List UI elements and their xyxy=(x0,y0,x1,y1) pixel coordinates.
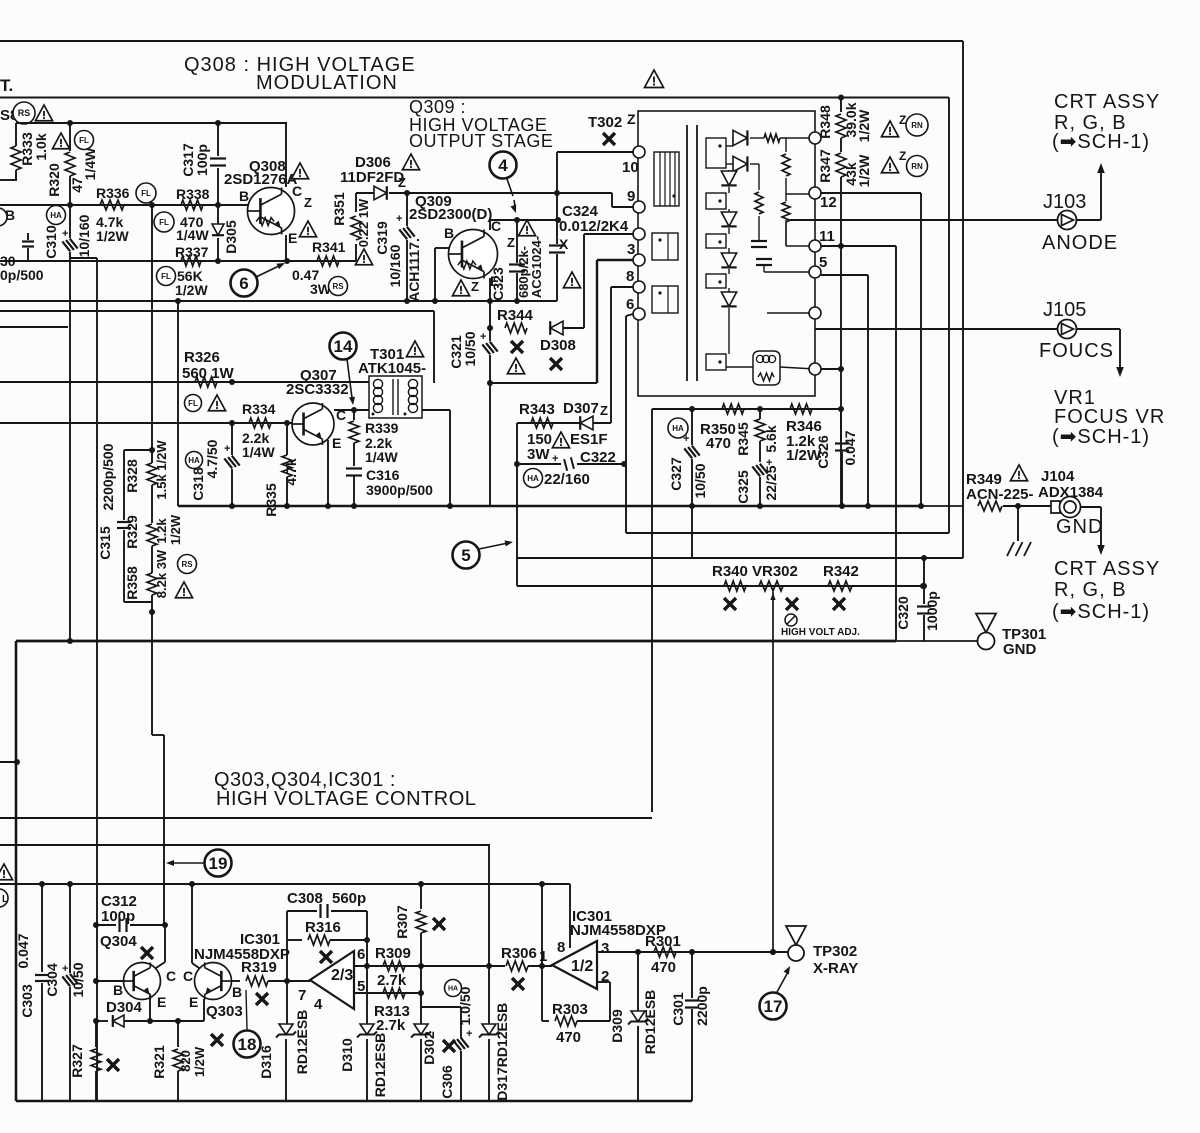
wire Q307 emitter xyxy=(327,440,329,447)
warning triangle Z1 xyxy=(881,121,898,137)
mark X Q303 xyxy=(211,1034,223,1046)
potentiometer VR302 xyxy=(759,581,783,591)
indicator RN 1 xyxy=(906,114,928,136)
svg-text:3: 3 xyxy=(627,241,635,258)
svg-text:OUTPUT STAGE: OUTPUT STAGE xyxy=(409,131,553,151)
svg-text:C: C xyxy=(166,968,176,984)
resistor R349 xyxy=(978,501,1002,511)
warning triangle Q309 E xyxy=(452,280,469,296)
wire T301 right pin xyxy=(422,409,450,411)
wire pin3 line y952 xyxy=(597,951,788,953)
wire Q307 collector line xyxy=(334,409,369,411)
svg-text:HA: HA xyxy=(50,211,62,220)
svg-text:+: + xyxy=(480,331,486,343)
wire stub left y180 xyxy=(0,179,16,181)
wire x367 drop xyxy=(366,940,368,1024)
svg-text:0.012/2K4: 0.012/2K4 xyxy=(559,218,629,235)
svg-text:2SD2300(D): 2SD2300(D) xyxy=(409,206,492,223)
T302 HV diode 3 xyxy=(728,248,730,253)
svg-text:D308: D308 xyxy=(540,337,576,354)
T302 pin 10 xyxy=(633,146,645,158)
svg-text:VR302: VR302 xyxy=(752,563,798,580)
T302 primary winding 3 xyxy=(652,286,678,313)
mark X R342 xyxy=(833,598,845,610)
wire Q304 emitter xyxy=(149,995,151,1021)
svg-text:E: E xyxy=(332,435,341,451)
op-amp IC301 2/3 xyxy=(310,951,354,1009)
mark X Q304 xyxy=(141,947,153,959)
T302 secondary winding boxes xyxy=(706,138,726,168)
svg-text:1.0/50: 1.0/50 xyxy=(457,986,473,1025)
svg-text:E: E xyxy=(189,994,198,1010)
svg-text:6: 6 xyxy=(626,296,634,313)
svg-text:C323: C323 xyxy=(490,267,506,301)
warning triangle top xyxy=(645,70,664,88)
svg-text:+: + xyxy=(396,213,402,225)
svg-text:C310: C310 xyxy=(43,225,59,259)
svg-text:1.5k 1/2W: 1.5k 1/2W xyxy=(154,440,169,500)
transistor Q304 xyxy=(124,963,161,1000)
capacitor C318 xyxy=(231,423,233,455)
svg-text:R306: R306 xyxy=(501,945,537,962)
svg-text:R328: R328 xyxy=(124,459,140,493)
resistor R336 xyxy=(100,200,124,210)
T302 primary winding 1 xyxy=(654,152,679,206)
wire vr line y586 xyxy=(517,585,924,587)
svg-text:3W: 3W xyxy=(527,446,550,463)
svg-text:MODULATION: MODULATION xyxy=(256,72,398,94)
svg-text:R335: R335 xyxy=(263,483,279,517)
testpoint TP302 xyxy=(770,949,776,955)
svg-text:3900p/500: 3900p/500 xyxy=(366,482,433,498)
svg-text:7: 7 xyxy=(298,987,306,1004)
svg-text:5: 5 xyxy=(819,254,827,271)
indicator FL R320 xyxy=(75,131,94,150)
svg-text:ATK1045-: ATK1045- xyxy=(358,360,426,377)
warning triangle T301 xyxy=(406,341,423,357)
wire thick gnd bus y641 xyxy=(16,640,896,643)
capacitor C306 xyxy=(453,1036,468,1051)
resistor R320 xyxy=(69,123,71,151)
svg-text:RD12ESB: RD12ESB xyxy=(294,1010,310,1075)
svg-text:8: 8 xyxy=(557,939,565,956)
svg-text:470: 470 xyxy=(706,435,731,452)
wire output rail x287 xyxy=(286,911,288,981)
svg-text:X: X xyxy=(559,236,569,252)
wire C306 jog xyxy=(421,1006,461,1008)
svg-text:5.6k: 5.6k xyxy=(763,425,779,452)
svg-text:1/2W: 1/2W xyxy=(856,109,872,142)
svg-text:1/2W: 1/2W xyxy=(168,514,183,545)
svg-text:RN: RN xyxy=(911,121,923,130)
resistor R328 xyxy=(151,450,153,463)
svg-text:12: 12 xyxy=(820,194,837,211)
wire right inner vertical xyxy=(948,98,950,534)
svg-text:D310: D310 xyxy=(339,1038,355,1072)
wire Q308 collector xyxy=(285,123,287,187)
resistor R338 xyxy=(181,200,203,210)
mark X VR302 xyxy=(786,598,798,610)
svg-text:B: B xyxy=(239,188,249,204)
capacitor C304 xyxy=(69,884,71,973)
warning triangle top-left xyxy=(35,105,52,121)
capacitor C323 xyxy=(516,220,518,263)
svg-text:R343: R343 xyxy=(519,401,555,418)
wire hv sub line y558 xyxy=(517,557,963,559)
svg-text:Z: Z xyxy=(899,149,906,163)
svg-text:E: E xyxy=(288,230,297,246)
svg-text:FOCUS VR: FOCUS VR xyxy=(1054,406,1165,428)
warning triangle R349 xyxy=(1010,465,1027,481)
svg-text:CRT ASSY: CRT ASSY xyxy=(1054,91,1160,113)
svg-text:R319: R319 xyxy=(241,959,277,976)
svg-text:FL: FL xyxy=(161,272,171,281)
svg-text:D317: D317 xyxy=(494,1067,510,1101)
wire chain down jog xyxy=(151,612,153,735)
resistor R346 xyxy=(790,404,812,414)
svg-text:Z: Z xyxy=(304,195,312,210)
wire pin11 drop x896 xyxy=(895,246,897,641)
svg-text:5: 5 xyxy=(461,546,470,565)
resistor R350 xyxy=(722,404,744,414)
svg-text:RD12ESB: RD12ESB xyxy=(642,990,658,1055)
svg-text:E: E xyxy=(157,994,166,1010)
wire D308 up x584 xyxy=(583,234,585,328)
zener D302 xyxy=(414,1024,428,1035)
T302 interior pin12 line xyxy=(786,193,809,195)
wire T301 top feed xyxy=(433,311,435,383)
svg-text:1/4W: 1/4W xyxy=(365,449,398,465)
svg-text:R338: R338 xyxy=(176,186,210,202)
svg-text:2200p/500: 2200p/500 xyxy=(100,443,116,510)
T302 pin 3 xyxy=(633,254,645,266)
svg-text:R342: R342 xyxy=(823,563,859,580)
mark X R319 xyxy=(256,993,268,1005)
wire node line y123 xyxy=(16,122,287,124)
svg-text:10/160: 10/160 xyxy=(387,244,403,287)
T302 wire mid xyxy=(785,220,787,246)
wire GND bus y506 xyxy=(178,505,921,508)
resistor R307 xyxy=(420,884,422,909)
svg-text:R351: R351 xyxy=(331,192,347,226)
warning triangle R333 xyxy=(52,133,69,149)
svg-text:+: + xyxy=(224,443,230,455)
svg-text:100p: 100p xyxy=(101,908,135,925)
svg-text:1: 1 xyxy=(539,948,547,965)
svg-text:1/4W: 1/4W xyxy=(242,444,275,460)
svg-text:0.047: 0.047 xyxy=(842,430,858,465)
wire C310 jog xyxy=(70,257,97,259)
indicator L left edge xyxy=(0,889,8,907)
balloon 6 callout xyxy=(231,270,258,297)
svg-text:J105: J105 xyxy=(1043,299,1086,321)
resistor R351 xyxy=(355,244,357,261)
svg-text:HIGH VOLTAGE CONTROL: HIGH VOLTAGE CONTROL xyxy=(216,788,476,810)
warning triangle left edge xyxy=(0,864,13,880)
mark X R316 xyxy=(320,951,332,963)
svg-text:8: 8 xyxy=(626,268,634,285)
wire pin8 drop xyxy=(569,884,571,948)
T302 pin 8 xyxy=(633,281,645,293)
T302 HV diode top B xyxy=(726,163,733,165)
warning triangle Q308 C xyxy=(291,163,308,179)
resistor R340 xyxy=(724,581,746,591)
svg-text:RN: RN xyxy=(911,162,923,171)
wire collector line y220 xyxy=(490,219,558,221)
balloon 17 callout xyxy=(760,993,787,1020)
warning triangle Q307 xyxy=(208,395,225,411)
svg-text:11: 11 xyxy=(819,228,835,245)
capacitor C326 xyxy=(840,409,842,441)
svg-text:Q303: Q303 xyxy=(206,1003,243,1020)
wire x692 below bus xyxy=(691,506,693,558)
svg-text:RD12ESB: RD12ESB xyxy=(494,1003,510,1068)
wire pin3 thick feed xyxy=(597,259,633,261)
svg-text:R327: R327 xyxy=(69,1044,85,1078)
svg-text:+: + xyxy=(62,228,68,240)
svg-text:J104: J104 xyxy=(1041,468,1075,485)
warning triangle Z2 xyxy=(881,157,898,173)
wire focus-area vertical x924 xyxy=(923,558,925,604)
svg-text:R329: R329 xyxy=(124,515,140,549)
svg-text:D309: D309 xyxy=(609,1009,625,1043)
wire pin8 line xyxy=(611,286,633,288)
wire emitter junction y1021 xyxy=(203,999,205,1021)
svg-text:+: + xyxy=(62,963,68,975)
svg-text:R309: R309 xyxy=(375,945,411,962)
T302 right rail pins xyxy=(809,132,821,144)
warning triangle Q309 C xyxy=(518,220,535,236)
wire box top y423 right xyxy=(517,422,611,424)
capacitor C303 xyxy=(41,884,43,972)
warning triangle D306 xyxy=(402,154,419,170)
svg-text:Z: Z xyxy=(471,279,479,294)
T302 primary winding 2 xyxy=(652,233,678,260)
indicator RN 2 xyxy=(907,156,928,177)
svg-text:+: + xyxy=(683,433,689,445)
warning triangle Q308 E xyxy=(299,221,316,237)
wire pin3-C324 line y234 xyxy=(584,233,633,235)
resistor R327 xyxy=(95,1021,97,1047)
wire chain top xyxy=(124,449,152,451)
svg-text:D307: D307 xyxy=(563,400,599,417)
svg-text:Q309 :: Q309 : xyxy=(409,97,466,117)
wire hline y845 xyxy=(0,844,490,846)
svg-text:C322: C322 xyxy=(580,449,616,466)
wire bottom bus xyxy=(16,1100,692,1103)
svg-text:R307: R307 xyxy=(394,905,410,939)
warning triangle R341 right xyxy=(355,249,372,265)
T302 focus coil xyxy=(753,351,780,385)
zener D316 xyxy=(286,981,288,1024)
svg-text:470: 470 xyxy=(651,959,676,976)
svg-text:RS: RS xyxy=(332,282,344,291)
wire node-B+ rail xyxy=(0,97,949,99)
transformer T302 outline xyxy=(638,111,815,396)
resistor R339 xyxy=(353,410,355,420)
svg-text:B: B xyxy=(113,982,123,998)
svg-text:Q304: Q304 xyxy=(100,933,137,950)
svg-text:820: 820 xyxy=(178,1050,193,1072)
resistor R345 xyxy=(759,409,761,419)
capacitor C322 xyxy=(517,463,561,465)
wire focus line y329 xyxy=(815,328,1058,330)
svg-text:R, G, B: R, G, B xyxy=(1054,579,1127,601)
svg-text:2/3: 2/3 xyxy=(331,967,353,984)
svg-text:R334: R334 xyxy=(242,401,276,417)
T302 pin5 wire xyxy=(764,271,815,273)
svg-text:1000p: 1000p xyxy=(924,591,940,631)
wire line y311 xyxy=(0,310,434,312)
svg-text:C315: C315 xyxy=(97,526,113,560)
wire GND bus left riser x178 xyxy=(177,301,179,506)
T302 cap 2 xyxy=(756,258,772,260)
svg-text:2200p: 2200p xyxy=(694,986,710,1026)
wire pin12 drop x921 xyxy=(920,193,922,506)
T302 internal divider bottom xyxy=(785,194,787,201)
resistor R358 xyxy=(147,573,157,595)
wire x152 upper xyxy=(151,205,153,450)
T302 interior pin11 line xyxy=(786,245,809,247)
svg-text:Z: Z xyxy=(600,403,608,418)
T302 pin 6 xyxy=(633,308,645,320)
wire pin11 line xyxy=(821,245,896,247)
wire subckt top y409 xyxy=(652,408,841,410)
resistor R335 xyxy=(286,423,288,455)
zener D317 xyxy=(488,966,490,1024)
svg-text:17: 17 xyxy=(764,997,783,1016)
svg-text:T.: T. xyxy=(0,76,13,95)
balloon 14 callout xyxy=(330,333,357,360)
zener D310 xyxy=(360,1024,374,1035)
warning triangle ACG xyxy=(563,272,580,288)
mark X R340 xyxy=(724,598,736,610)
svg-text:RD12ESB: RD12ESB xyxy=(372,1033,388,1098)
warning triangle R358 xyxy=(175,582,192,598)
svg-text:C325: C325 xyxy=(735,470,751,504)
wire rail y884 xyxy=(0,883,570,885)
wire pin8 drop x611 xyxy=(610,287,612,423)
svg-text:RS: RS xyxy=(181,560,193,569)
mark X R307 xyxy=(433,918,445,930)
wire x542 feedback xyxy=(541,884,543,966)
svg-text:100p: 100p xyxy=(194,144,210,176)
mark X R306 xyxy=(512,978,524,990)
svg-text:HA: HA xyxy=(188,456,200,465)
svg-text:B: B xyxy=(232,984,242,1000)
svg-text:Z: Z xyxy=(627,111,636,127)
capacitor C325 xyxy=(752,462,767,477)
wire x489 drop xyxy=(488,845,490,966)
svg-text:HIGH VOLT ADJ.: HIGH VOLT ADJ. xyxy=(781,627,860,638)
indicator HA C327 xyxy=(668,418,688,438)
svg-text:3: 3 xyxy=(601,940,609,957)
svg-text:X-RAY: X-RAY xyxy=(813,960,858,977)
svg-text:RS: RS xyxy=(18,108,31,118)
svg-text:10/50: 10/50 xyxy=(462,331,478,366)
wire subckt left x652 xyxy=(651,409,653,812)
svg-text:FL: FL xyxy=(188,399,198,408)
wire B+ return y533 xyxy=(626,532,949,534)
svg-text:1.2k: 1.2k xyxy=(154,518,169,544)
wire pin9 jog xyxy=(611,193,613,207)
wire y762 stub xyxy=(0,761,17,763)
svg-text:10: 10 xyxy=(622,159,639,176)
diode D305 xyxy=(217,205,219,224)
svg-text:10/50: 10/50 xyxy=(692,463,708,498)
svg-text:FL: FL xyxy=(141,189,151,198)
svg-text:FL: FL xyxy=(159,218,169,227)
svg-text:6: 6 xyxy=(357,946,365,963)
svg-text:D305: D305 xyxy=(223,220,239,254)
svg-text:1/2W: 1/2W xyxy=(856,154,872,187)
svg-text:ACN-225-: ACN-225- xyxy=(966,486,1034,503)
svg-text:+: + xyxy=(466,1028,472,1040)
wire pin6 drop x626 xyxy=(625,316,627,533)
wire stub y328 left xyxy=(0,326,68,328)
svg-text:GND: GND xyxy=(1003,641,1037,658)
svg-text:C306: C306 xyxy=(439,1065,455,1099)
svg-text:10/160: 10/160 xyxy=(76,214,92,257)
svg-text:ANODE: ANODE xyxy=(1042,232,1118,254)
T302 internal resistor right xyxy=(758,137,764,139)
capacitor C315 xyxy=(123,450,125,520)
zener D309 xyxy=(637,952,639,1011)
svg-text:0p/500: 0p/500 xyxy=(0,267,44,283)
svg-text:R341: R341 xyxy=(312,239,346,255)
wire pin6 line y966 xyxy=(354,965,505,967)
capacitor C327 xyxy=(691,409,693,445)
wire chain bottom xyxy=(124,601,152,603)
svg-text:T302: T302 xyxy=(588,114,622,131)
svg-text:Z: Z xyxy=(507,235,515,250)
T302 pin1 wire internal xyxy=(767,312,815,314)
wire x517 drop xyxy=(516,464,518,586)
svg-text:1.0k: 1.0k xyxy=(33,133,49,160)
wire pin1 line xyxy=(821,368,841,370)
svg-text:ACH1117.: ACH1117. xyxy=(406,238,422,302)
resistor R321 xyxy=(177,1021,179,1047)
transformer core xyxy=(686,125,688,381)
svg-text:R320: R320 xyxy=(46,163,62,197)
balloon 19 callout xyxy=(205,850,232,877)
svg-text:R345: R345 xyxy=(735,422,751,456)
wire emitter line y261 xyxy=(0,260,356,262)
wire J105 arrow xyxy=(1076,328,1120,330)
T302 pin mid xyxy=(633,228,645,240)
T302 internal R mid xyxy=(758,164,760,190)
svg-text:GND: GND xyxy=(1056,516,1103,538)
svg-text:C303: C303 xyxy=(19,984,35,1018)
wire Q304 collector xyxy=(164,925,166,962)
svg-text:L: L xyxy=(2,894,8,905)
svg-text:R321: R321 xyxy=(151,1045,167,1079)
wire Q308 emitter xyxy=(285,235,287,261)
svg-text:R339: R339 xyxy=(365,420,399,436)
svg-text:(➡SCH-1): (➡SCH-1) xyxy=(1052,131,1150,153)
svg-text:R348: R348 xyxy=(817,105,833,139)
mark X R344 xyxy=(511,341,523,353)
wire pin12 line xyxy=(821,192,921,194)
svg-text:22/160: 22/160 xyxy=(544,471,590,488)
wire line y382 xyxy=(0,381,369,383)
wire base line y423 xyxy=(0,422,292,424)
svg-text:C320: C320 xyxy=(895,596,911,630)
svg-text:+: + xyxy=(552,453,558,465)
svg-text:4: 4 xyxy=(498,156,508,175)
svg-text:D302: D302 xyxy=(421,1031,437,1065)
resistor R347 xyxy=(836,153,846,177)
